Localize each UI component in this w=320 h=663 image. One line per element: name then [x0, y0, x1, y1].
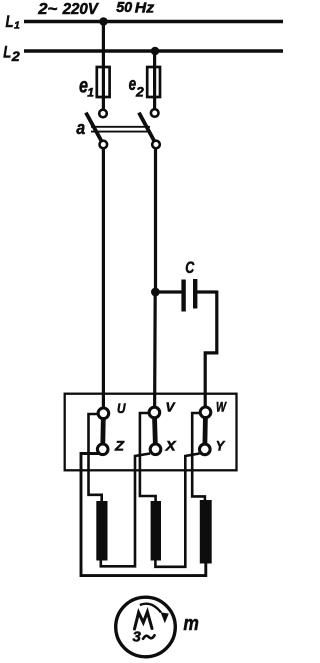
label L2	[3, 43, 20, 65]
label e2	[129, 74, 145, 100]
wire winding 2 bottom to terminal Y	[155, 454, 199, 567]
svg-text:Z: Z	[114, 438, 125, 454]
node junction at capacitor tap	[151, 288, 160, 297]
svg-text:C: C	[185, 258, 195, 277]
motor label M	[135, 612, 153, 629]
wire hook terminal U to winding 1 top	[89, 414, 102, 503]
svg-text:2~: 2~	[37, 1, 57, 18]
svg-text:m: m	[183, 613, 199, 635]
fuse e2	[147, 67, 160, 97]
motor M circle	[116, 597, 176, 657]
switch a : mechanical linkage bar	[91, 127, 150, 132]
label supply "2~ 220V 50 Hz"	[37, 0, 155, 18]
capacitor C right plate	[193, 279, 197, 309]
link bar V-X	[154, 413, 155, 450]
wire winding 1 bottom to terminal X	[101, 454, 150, 567]
svg-text:2: 2	[11, 48, 20, 64]
net L1 (top supply line)	[24, 20, 283, 24]
terminal box	[65, 394, 237, 471]
svg-text:W: W	[216, 400, 227, 415]
terminal U	[98, 408, 109, 419]
label e1	[79, 75, 94, 100]
link bar W-Y	[202, 412, 207, 449]
svg-text:50: 50	[116, 0, 132, 16]
wire capacitor branch down with jog to terminal W	[205, 291, 217, 414]
wire switch pole 1 down to terminal U	[102, 147, 105, 413]
svg-text:2: 2	[135, 85, 144, 100]
svg-text:1: 1	[14, 20, 20, 32]
switch pole 1 bottom contact	[100, 141, 108, 149]
svg-text:3: 3	[133, 629, 142, 646]
winding 3	[200, 500, 212, 564]
wire L2 junction down to fuse e2 and switch pole 2	[153, 51, 156, 110]
svg-text:L: L	[3, 43, 11, 62]
link bar U-Z	[100, 413, 106, 449]
switch pole 1 top contact	[99, 110, 107, 118]
svg-text:Hz: Hz	[135, 1, 155, 17]
wire hook terminal V to winding 2 top	[140, 413, 156, 503]
svg-text:V: V	[166, 400, 176, 415]
wire hook terminal W to winding 3 top	[192, 413, 205, 503]
terminal Y	[200, 444, 211, 455]
winding 2	[151, 501, 161, 561]
svg-text:U: U	[117, 401, 127, 416]
terminal Z	[97, 444, 108, 455]
svg-text:220V: 220V	[62, 1, 100, 18]
terminal X	[150, 444, 161, 455]
terminal W	[200, 407, 211, 418]
net L2 (bottom supply line)	[24, 49, 283, 53]
label L1	[6, 12, 21, 32]
wire capacitor junction down to terminal V	[153, 292, 157, 413]
switch pole 2 bottom contact	[152, 141, 160, 149]
switch pole 2 top contact	[151, 109, 159, 117]
wire capacitor right plate to the right	[197, 290, 217, 293]
switch pole 1 blade	[87, 114, 102, 142]
svg-text:e: e	[129, 74, 137, 94]
fuse e1	[97, 67, 110, 97]
svg-text:1: 1	[87, 86, 94, 100]
wire switch pole 2 down to terminal V	[154, 147, 157, 292]
winding 1	[96, 501, 107, 561]
motor rotation arrow	[140, 604, 169, 624]
svg-text:X: X	[165, 438, 178, 454]
wire L1 junction down to fuse e1 and switch pole 1	[102, 22, 105, 111]
capacitor C left plate	[181, 280, 185, 312]
switch pole 2 blade	[140, 114, 155, 142]
node junction on L1	[99, 17, 108, 26]
terminal V	[149, 407, 160, 418]
wire terminal Z down and bus to winding 3 bottom	[81, 454, 206, 576]
wire junction to capacitor left plate	[155, 290, 181, 293]
svg-text:a: a	[76, 118, 85, 138]
node junction on L2	[151, 47, 160, 56]
svg-text:L: L	[6, 12, 14, 31]
